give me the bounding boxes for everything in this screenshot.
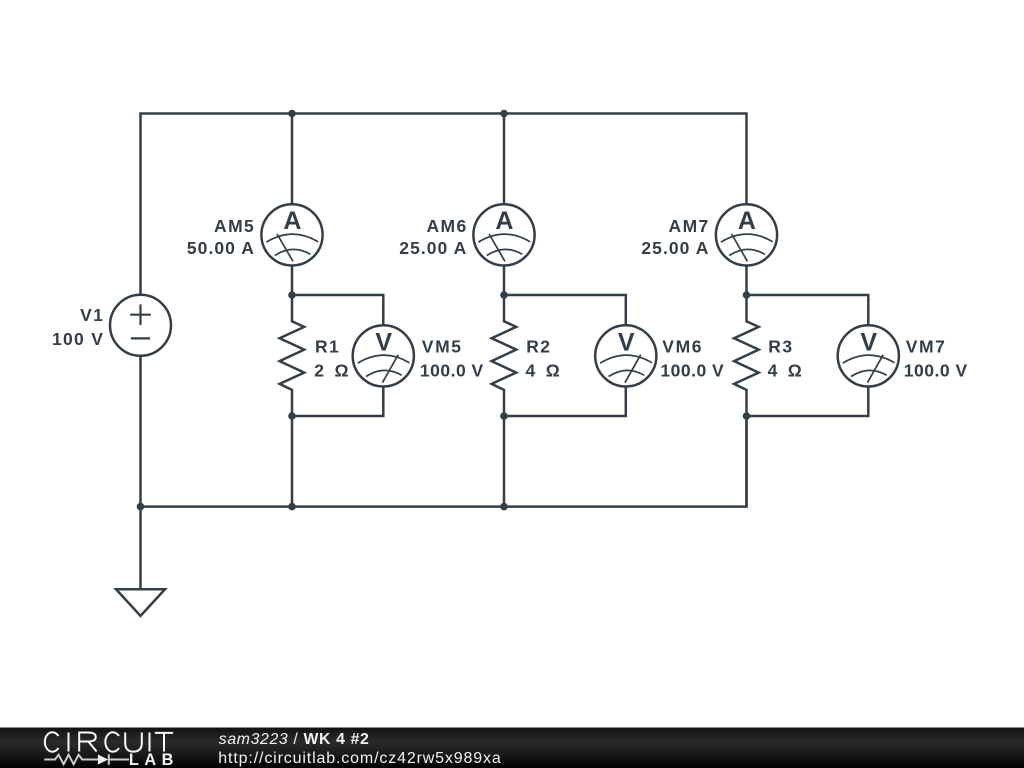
- svg-text:2 Ω: 2 Ω: [314, 360, 351, 380]
- svg-text:R1: R1: [315, 336, 340, 356]
- svg-text:VM7: VM7: [906, 336, 947, 356]
- svg-text:100.0 V: 100.0 V: [420, 360, 484, 380]
- svg-text:25.00 A: 25.00 A: [641, 238, 709, 258]
- svg-text:V1: V1: [80, 305, 104, 325]
- svg-text:25.00 A: 25.00 A: [399, 238, 467, 258]
- svg-text:100.0 V: 100.0 V: [904, 360, 968, 380]
- svg-text:AM6: AM6: [426, 216, 467, 236]
- svg-text:sam3223 / WK 4 #2: sam3223 / WK 4 #2: [219, 731, 369, 748]
- svg-text:AM5: AM5: [214, 216, 255, 236]
- svg-text:R3: R3: [768, 336, 793, 356]
- svg-text:4 Ω: 4 Ω: [768, 360, 805, 380]
- svg-text:VM6: VM6: [662, 336, 703, 356]
- svg-text:R2: R2: [526, 336, 551, 356]
- svg-text:LAB: LAB: [129, 751, 174, 768]
- svg-text:100.0 V: 100.0 V: [660, 360, 724, 380]
- svg-text:AM7: AM7: [669, 216, 710, 236]
- svg-text:100 V: 100 V: [52, 329, 104, 349]
- svg-text:4 Ω: 4 Ω: [526, 360, 563, 380]
- svg-text:VM5: VM5: [422, 336, 463, 356]
- svg-text:http://circuitlab.com/cz42rw5x: http://circuitlab.com/cz42rw5x989xa: [218, 750, 501, 767]
- svg-text:50.00 A: 50.00 A: [187, 238, 255, 258]
